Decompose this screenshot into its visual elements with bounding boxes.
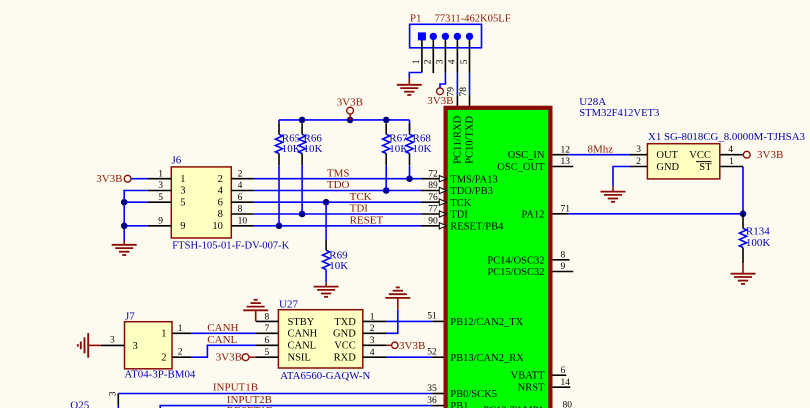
svg-text:6: 6 xyxy=(265,336,270,346)
junction on TDO xyxy=(383,187,390,194)
node TCK label xyxy=(350,191,372,203)
J6 pin 10 xyxy=(231,217,253,227)
svg-text:AT04-3P-BM04: AT04-3P-BM04 xyxy=(124,369,195,381)
wire net TDI xyxy=(254,213,421,215)
node INPUT1B label xyxy=(213,381,258,393)
U28A pin 72 TMS/PA13 xyxy=(421,169,498,185)
U28A pin 80 (clipped at bottom) xyxy=(483,400,572,408)
svg-text:NRST: NRST xyxy=(518,383,545,394)
junction rail power stem xyxy=(347,117,354,124)
wire net CANL xyxy=(192,345,256,357)
svg-text:5: 5 xyxy=(265,348,270,358)
svg-text:4: 4 xyxy=(238,181,243,191)
svg-text:TCK: TCK xyxy=(450,198,471,209)
svg-text:80: 80 xyxy=(563,400,573,408)
svg-text:79: 79 xyxy=(447,87,457,97)
svg-text:3: 3 xyxy=(370,336,375,346)
svg-text:TXD: TXD xyxy=(334,317,356,328)
ground at X1 xyxy=(601,186,626,202)
svg-text:ATA6560-GAQW-N: ATA6560-GAQW-N xyxy=(280,370,370,382)
transistor Q25 designator (clipped) xyxy=(70,399,89,408)
J6 pin 8 xyxy=(231,205,253,215)
wire 3V3B pull-up rail xyxy=(279,120,410,130)
J6 inside pin names xyxy=(180,174,223,232)
svg-text:STBY: STBY xyxy=(288,317,315,328)
svg-text:90: 90 xyxy=(428,217,438,227)
J6 pin 4 xyxy=(231,181,253,191)
wire P1 pin3 to 3V3B xyxy=(440,73,445,88)
svg-text:14: 14 xyxy=(561,378,571,388)
J6 pin 6 xyxy=(231,193,253,203)
ground at P1 xyxy=(397,79,422,95)
svg-text:4: 4 xyxy=(370,348,375,358)
U27 value ATA6560-GAQW-N xyxy=(280,370,370,382)
U28A designator labels xyxy=(579,96,659,119)
wire net TCK xyxy=(254,201,421,203)
svg-text:3: 3 xyxy=(109,391,119,396)
earth ground at J7 pin3 xyxy=(78,333,101,358)
node TDO label xyxy=(327,179,350,191)
wire U27 RXD to U28A pin 52 xyxy=(386,356,432,358)
svg-text:PB0/SCK5: PB0/SCK5 xyxy=(450,389,497,400)
svg-text:3V3B: 3V3B xyxy=(399,340,425,352)
connector J6 body xyxy=(171,167,231,238)
node CANH label xyxy=(207,322,238,334)
svg-text:FTSH-105-01-F-DV-007-K: FTSH-105-01-F-DV-007-K xyxy=(172,240,289,252)
svg-text:5: 5 xyxy=(180,197,185,208)
node RESET label xyxy=(350,215,384,227)
svg-text:77: 77 xyxy=(428,205,438,215)
svg-text:2: 2 xyxy=(161,353,166,364)
svg-text:10: 10 xyxy=(238,217,248,227)
J6 pin 2 xyxy=(231,169,253,179)
wire P1 pin5 to U28A pin 78 xyxy=(459,73,470,107)
svg-text:72: 72 xyxy=(428,169,438,179)
svg-text:PC10/TXD: PC10/TXD xyxy=(464,116,475,164)
svg-text:NSIL: NSIL xyxy=(288,353,311,364)
wire P1 pin1 to ground xyxy=(409,73,422,79)
svg-text:8: 8 xyxy=(218,209,223,220)
svg-text:3: 3 xyxy=(180,186,185,197)
svg-text:2: 2 xyxy=(370,324,375,334)
U28A pin 14 NRST xyxy=(518,378,571,394)
U28A pin 51 PB12/CAN2_TX xyxy=(427,312,523,328)
svg-text:Q25: Q25 xyxy=(70,399,89,408)
P1 designator and value 77311-462K05LF xyxy=(410,12,511,24)
J7 pin 3 xyxy=(101,335,125,345)
resistor R65 10K xyxy=(275,124,300,226)
U28A pin 13 OSC_OUT xyxy=(497,157,573,173)
resistor R134 100K xyxy=(739,214,770,263)
U28A pin 35 PB0/SCK5 xyxy=(427,384,497,400)
node RESET1B label (clipped) xyxy=(227,405,273,408)
svg-text:1: 1 xyxy=(178,324,183,334)
svg-text:1: 1 xyxy=(161,329,166,340)
connector J7 body xyxy=(125,322,173,369)
svg-text:100K: 100K xyxy=(746,237,771,249)
svg-text:X1 SG-8018CG_8.0000M-TJHSA3: X1 SG-8018CG_8.0000M-TJHSA3 xyxy=(648,131,805,143)
svg-text:3: 3 xyxy=(636,145,641,155)
U27 pin 4 xyxy=(363,348,386,358)
svg-text:3: 3 xyxy=(110,335,115,345)
svg-text:R134: R134 xyxy=(746,225,770,237)
power port 3V3B at J6 pin1 xyxy=(96,173,148,185)
U28A pin 89 TDO/PB3 xyxy=(421,181,493,197)
U28A pin 78 name PC10/TXD xyxy=(464,116,475,164)
J7 pin 2 xyxy=(172,348,192,358)
svg-text:RESET/PB4: RESET/PB4 xyxy=(450,221,504,232)
svg-text:5: 5 xyxy=(460,59,470,64)
Q25 pin 3 xyxy=(109,391,119,408)
svg-text:6: 6 xyxy=(561,366,566,376)
svg-text:1: 1 xyxy=(370,312,375,322)
svg-text:10K: 10K xyxy=(304,143,323,155)
svg-text:TDI: TDI xyxy=(350,203,369,215)
svg-text:U28A: U28A xyxy=(579,96,606,108)
svg-text:3: 3 xyxy=(436,59,446,64)
ground at U27 STBY xyxy=(243,300,268,322)
U27 pin 7 xyxy=(256,324,278,334)
svg-text:1: 1 xyxy=(158,169,163,179)
junction J6 pin9 xyxy=(121,223,128,230)
svg-text:RESET: RESET xyxy=(350,215,384,227)
U28A pin 79 name PC11/RXD xyxy=(452,115,463,163)
svg-text:7: 7 xyxy=(265,324,270,334)
svg-text:INPUT1B: INPUT1B xyxy=(213,381,258,393)
node 8Mhz label xyxy=(588,143,614,155)
wire net CANH xyxy=(192,332,256,334)
wire net RESET xyxy=(254,225,421,227)
svg-text:PC14/OSC32: PC14/OSC32 xyxy=(487,255,544,266)
svg-text:TDO/PB3: TDO/PB3 xyxy=(450,186,493,197)
resistor R67 10K xyxy=(383,124,409,191)
svg-text:3V3B: 3V3B xyxy=(216,352,242,364)
junction on RESET xyxy=(276,223,283,230)
svg-text:2: 2 xyxy=(218,174,223,185)
svg-text:P1: P1 xyxy=(410,12,422,24)
wire net 8Mhz xyxy=(568,154,629,156)
U28A pin 9 PC15/OSC32 xyxy=(487,262,573,278)
U28A pin 71 PA12 xyxy=(522,205,571,221)
svg-text:9: 9 xyxy=(561,262,566,272)
svg-text:4: 4 xyxy=(728,145,733,155)
node TMS label xyxy=(327,167,350,179)
svg-text:8: 8 xyxy=(561,251,566,261)
U27 pin 6 xyxy=(256,336,278,346)
junction on TDI xyxy=(299,211,306,218)
U27 pin 3 xyxy=(363,336,386,346)
node CANL label xyxy=(207,334,237,346)
J6 value FTSH-105-01-F-DV-007-K xyxy=(172,240,289,252)
connector P1 xyxy=(410,24,482,48)
svg-text:10K: 10K xyxy=(413,143,432,155)
X1 pin 4 xyxy=(720,145,743,155)
junction J6 pin5 xyxy=(121,199,128,206)
op-amp U28A body (STM32F412VET3) xyxy=(446,108,551,408)
power port 3V3B at P1 pin3 xyxy=(427,88,453,107)
svg-text:OUT: OUT xyxy=(656,150,678,161)
transceiver U27 body xyxy=(278,310,362,368)
svg-text:77311-462K05LF: 77311-462K05LF xyxy=(435,12,511,24)
J7 pin 1 xyxy=(172,324,192,334)
U28A pin 76 TCK xyxy=(421,193,472,209)
svg-text:PB12/CAN2_TX: PB12/CAN2_TX xyxy=(450,317,523,328)
svg-text:VCC: VCC xyxy=(334,341,356,352)
svg-text:CANL: CANL xyxy=(288,341,317,352)
svg-text:OSC_OUT: OSC_OUT xyxy=(497,162,545,173)
svg-text:10: 10 xyxy=(212,221,223,232)
svg-text:PA12: PA12 xyxy=(522,209,545,220)
J6 pin 3 xyxy=(148,181,171,191)
P1 pins 1-5 xyxy=(412,40,470,73)
J7 designator xyxy=(125,310,135,322)
U28A pin 90 RESET/PB4 xyxy=(421,217,504,233)
svg-text:10K: 10K xyxy=(329,260,348,272)
wire U27 TXD to U28A pin 51 xyxy=(386,320,432,322)
svg-text:CANH: CANH xyxy=(207,322,238,334)
svg-text:CANL: CANL xyxy=(207,334,237,346)
X1 designator and value xyxy=(648,131,805,143)
svg-text:1: 1 xyxy=(180,174,185,185)
X1 inside pin names xyxy=(656,150,712,173)
svg-text:PB1: PB1 xyxy=(450,401,468,408)
wire net PA12 xyxy=(568,213,743,215)
U27 pin 8 xyxy=(256,312,278,322)
svg-text:3: 3 xyxy=(133,341,138,352)
resistor R69 10K xyxy=(323,202,349,282)
junction on TMS xyxy=(406,175,413,182)
svg-text:6: 6 xyxy=(238,193,243,203)
resistor R66 10K xyxy=(299,124,323,215)
U27 pin 1 xyxy=(363,312,386,322)
X1 pin 2 xyxy=(629,157,647,167)
U28A pin 8 PC14/OSC32 xyxy=(487,251,569,267)
svg-text:4: 4 xyxy=(448,59,458,64)
svg-text:1: 1 xyxy=(412,59,422,64)
wire X1 ST to PA12 net xyxy=(742,167,744,214)
svg-text:2: 2 xyxy=(178,348,183,358)
svg-text:PC11/RXD: PC11/RXD xyxy=(452,115,463,163)
svg-text:CANH: CANH xyxy=(288,329,318,340)
wire net TMS xyxy=(254,178,421,180)
svg-text:4: 4 xyxy=(218,186,224,197)
power port 3V3B at X1 VCC xyxy=(743,149,783,161)
wire X1 GND to ground xyxy=(613,167,629,187)
svg-text:8Mhz: 8Mhz xyxy=(588,143,614,155)
junction on TCK xyxy=(323,199,330,206)
U28A pin 6 VBATT xyxy=(511,366,567,382)
power port 3V3B at U27 NSIL xyxy=(216,352,256,364)
J6 pin 9 xyxy=(148,217,171,227)
svg-text:RXD: RXD xyxy=(334,353,357,364)
svg-text:TDO: TDO xyxy=(327,179,350,191)
ground at R69 xyxy=(314,282,339,297)
U27 pin 2 xyxy=(363,324,386,334)
node INPUT2B label xyxy=(227,394,272,406)
U28A pin 36 PB1 xyxy=(427,396,468,408)
svg-text:3V3B: 3V3B xyxy=(757,149,783,161)
svg-text:51: 51 xyxy=(427,312,437,322)
X1 pin 1 xyxy=(720,157,743,167)
J7 value AT04-3P-BM04 xyxy=(124,369,195,381)
power port 3V3B at U27 VCC xyxy=(386,340,425,352)
svg-text:89: 89 xyxy=(428,181,438,191)
svg-text:36: 36 xyxy=(427,396,437,406)
ground at R134 xyxy=(731,263,756,284)
svg-text:J7: J7 xyxy=(125,310,135,322)
oscillator X1 body xyxy=(647,144,719,179)
resistor R68 10K xyxy=(406,124,432,179)
svg-text:13: 13 xyxy=(561,157,571,167)
J6 designator xyxy=(172,155,182,167)
svg-text:VBATT: VBATT xyxy=(511,371,545,382)
wire net INPUT1B xyxy=(118,393,432,395)
wire U27 GND to ground xyxy=(386,310,398,334)
svg-text:8: 8 xyxy=(265,312,270,322)
svg-text:TDI: TDI xyxy=(450,210,468,221)
X1 pin 3 xyxy=(629,145,647,155)
U27 designator xyxy=(279,298,298,310)
svg-text:TCK: TCK xyxy=(350,191,372,203)
U28A pin 12 OSC_IN xyxy=(508,145,571,161)
node TDI label xyxy=(350,203,369,215)
svg-text:GND: GND xyxy=(656,162,679,173)
svg-text:3V3B: 3V3B xyxy=(96,173,122,185)
J6 pin 5 xyxy=(148,193,171,203)
ground at J6 xyxy=(112,241,137,256)
svg-text:78: 78 xyxy=(459,87,469,97)
svg-text:3V3B: 3V3B xyxy=(337,96,363,108)
svg-text:6: 6 xyxy=(218,197,223,208)
svg-text:2: 2 xyxy=(636,157,641,167)
J6 pin 1 xyxy=(148,169,171,179)
junction PA12/R134 xyxy=(740,211,747,218)
svg-text:PB13/CAN2_RX: PB13/CAN2_RX xyxy=(450,353,524,364)
svg-text:76: 76 xyxy=(428,193,438,203)
svg-text:ST: ST xyxy=(699,162,712,173)
U27 pin 5 xyxy=(256,348,278,358)
power port 3V3B above rail xyxy=(337,96,363,120)
wire net INPUT2B xyxy=(160,406,432,408)
svg-text:35: 35 xyxy=(427,384,437,394)
svg-text:J6: J6 xyxy=(172,155,182,167)
wire net TDO xyxy=(254,190,421,192)
svg-text:2: 2 xyxy=(424,59,434,64)
svg-text:TMS/PA13: TMS/PA13 xyxy=(450,174,497,185)
svg-text:3: 3 xyxy=(158,181,163,191)
U27 inside pin names xyxy=(288,317,357,364)
svg-text:1: 1 xyxy=(729,157,734,167)
U28A pin 52 PB13/CAN2_RX xyxy=(427,348,524,364)
svg-text:OSC_IN: OSC_IN xyxy=(508,150,545,161)
svg-text:VCC: VCC xyxy=(689,150,711,161)
U28A pin 77 TDI xyxy=(421,205,468,221)
svg-text:2: 2 xyxy=(238,169,243,179)
svg-text:9: 9 xyxy=(158,217,163,227)
wires J6 pins 3,5,9 to ground xyxy=(124,190,148,241)
J7 inside pin names xyxy=(133,329,167,364)
junction rail R66 xyxy=(299,117,306,124)
svg-text:GND: GND xyxy=(333,329,356,340)
svg-text:5: 5 xyxy=(158,193,163,203)
wire P1 pin4 to U28A pin 79 xyxy=(447,73,458,107)
svg-text:U27: U27 xyxy=(279,298,298,310)
svg-text:52: 52 xyxy=(427,348,437,358)
svg-text:8: 8 xyxy=(238,205,243,215)
svg-text:PC15/OSC32: PC15/OSC32 xyxy=(487,267,544,278)
ground at U27 GND xyxy=(385,287,410,309)
junction rail R67 xyxy=(383,117,390,124)
svg-text:TMS: TMS xyxy=(327,167,350,179)
svg-text:9: 9 xyxy=(180,221,185,232)
svg-text:STM32F412VET3: STM32F412VET3 xyxy=(579,107,659,119)
